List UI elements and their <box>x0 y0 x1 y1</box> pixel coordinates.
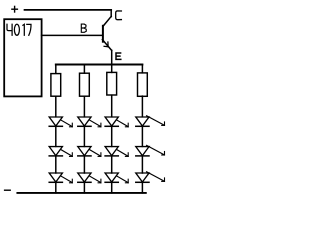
transistor Q1 base bar <box>102 26 104 42</box>
wire D6 to D10 <box>83 156 85 173</box>
resistor R1 <box>51 74 61 97</box>
LED D10 <box>78 173 101 183</box>
label 4017 value <box>7 24 31 35</box>
wire D5 to D9 <box>55 156 57 173</box>
LED D4 <box>136 116 165 127</box>
wire D11 to minus rail <box>111 182 113 193</box>
transistor Q1 collector stroke <box>103 16 111 26</box>
minus supply symbol <box>5 189 11 191</box>
LED D6 <box>78 147 101 157</box>
transistor Q1 emitter stroke <box>102 40 111 51</box>
wire collector drop <box>110 10 112 17</box>
wire D8 to D12 <box>141 156 143 173</box>
wire D7 to D11 <box>111 156 113 173</box>
resistor R4 <box>138 73 148 96</box>
wire R4 bottom to D4 <box>141 96 143 117</box>
wire R2 bottom to D2 <box>83 96 85 117</box>
LED D12 <box>136 172 165 183</box>
wire negative bottom rail <box>17 192 145 194</box>
LED D9 <box>49 173 72 183</box>
wire positive top rail <box>25 9 112 11</box>
wire D12 to minus rail <box>141 182 143 193</box>
LED D1 <box>49 117 72 127</box>
wire D9 to minus rail <box>55 182 57 193</box>
wire R3 bottom to D3 <box>111 95 113 117</box>
wire D4 to D8 <box>141 126 143 146</box>
resistor R2 <box>80 73 90 96</box>
LED D7 <box>105 147 128 157</box>
wire stub R4 top <box>141 65 143 73</box>
wire emitter rail <box>56 64 143 66</box>
plus supply symbol <box>12 6 18 12</box>
wire stub R2 top <box>83 65 85 74</box>
LED D3 <box>105 117 128 127</box>
LED D2 <box>78 117 101 127</box>
label C node <box>116 11 122 20</box>
wire emitter vertical to rail <box>111 50 113 64</box>
wire base from 4017 to Q1 <box>42 34 103 36</box>
LED D8 <box>136 145 165 156</box>
IC U1 4017 box <box>4 19 41 96</box>
wire D3 to D7 <box>111 126 113 146</box>
wire stub R3 top <box>111 65 113 73</box>
transistor Q1 emitter arrowhead <box>104 42 108 47</box>
label E node <box>116 53 121 59</box>
wire D2 to D6 <box>83 126 85 146</box>
LED D11 <box>105 173 128 183</box>
LED D5 <box>49 147 72 157</box>
wire D1 to D5 <box>55 126 57 146</box>
resistor R3 <box>107 72 117 95</box>
label B node <box>81 24 86 32</box>
wire stub R1 top <box>55 65 57 74</box>
wire R1 bottom to D1 <box>55 96 57 117</box>
wire D10 to minus rail <box>83 182 85 193</box>
